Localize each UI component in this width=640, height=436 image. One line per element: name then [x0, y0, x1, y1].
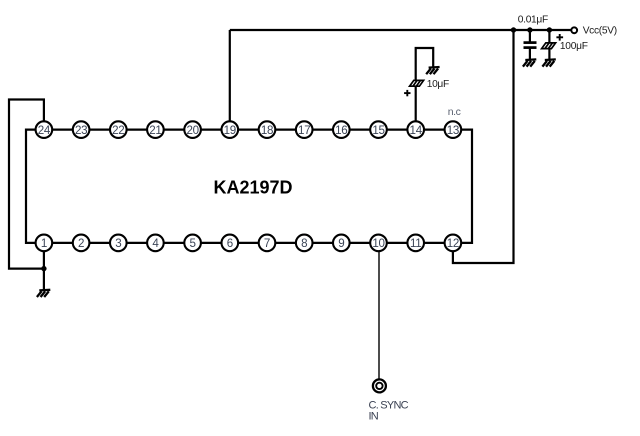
- svg-text:12: 12: [447, 237, 459, 250]
- pin 21: [147, 121, 164, 138]
- capacitor C2 100uF (electrolytic symbol): [542, 43, 556, 49]
- svg-text:13: 13: [447, 124, 459, 137]
- ground (C2): [542, 59, 555, 66]
- wire: Vcc rail drop to pin12: [453, 30, 514, 263]
- svg-text:8: 8: [301, 237, 307, 250]
- svg-text:21: 21: [149, 124, 161, 137]
- wire: C1 bottom lead: [529, 48, 531, 60]
- junction: rail to C1: [527, 27, 532, 32]
- pin 2: [73, 235, 90, 252]
- C2 polarity plus: [556, 34, 563, 41]
- ground (pin 1): [37, 290, 50, 297]
- C3 polarity plus: [404, 90, 410, 96]
- capacitor C3 10uF (electrolytic symbol): [410, 80, 424, 86]
- pin 19: [222, 121, 239, 138]
- svg-text:20: 20: [186, 124, 198, 137]
- capacitor C1 0.01uF plates: [524, 43, 537, 48]
- svg-text:17: 17: [298, 124, 310, 137]
- svg-text:5: 5: [190, 237, 196, 250]
- pin 1: [36, 235, 53, 252]
- pin 22: [110, 121, 127, 138]
- pin 7: [259, 235, 276, 252]
- pin 12: [445, 235, 462, 252]
- Vcc(5V) open terminal: [571, 27, 577, 33]
- junction: rail to C2: [547, 27, 552, 32]
- wire: Vcc rail (top horizontal): [230, 29, 571, 31]
- wire: C1 top lead: [529, 30, 531, 43]
- svg-text:7: 7: [264, 237, 270, 250]
- pin 4: [147, 235, 164, 252]
- wire: pin14 riser to C3: [415, 86, 417, 129]
- pin 17: [296, 121, 313, 138]
- svg-text:16: 16: [335, 124, 347, 137]
- wire: pin1 to ground: [43, 243, 45, 291]
- svg-text:KA2197D: KA2197D: [214, 177, 293, 197]
- connector J1 C.SYNC IN (double circle): [373, 379, 386, 392]
- svg-text:4: 4: [152, 237, 159, 250]
- pin 15: [370, 121, 387, 138]
- pin 10: [370, 235, 387, 252]
- wire: pin24 feedback loop (up, left, down to pin1 ground node): [9, 100, 44, 269]
- wire: pin10 to C.SYNC input jack (thin): [378, 243, 380, 379]
- pin 16: [333, 121, 350, 138]
- pin 8: [296, 235, 313, 252]
- svg-text:10: 10: [372, 237, 384, 250]
- svg-text:3: 3: [115, 237, 121, 250]
- ground (C1): [523, 59, 536, 66]
- svg-text:9: 9: [338, 237, 344, 250]
- wire: pin19 riser to Vcc rail: [229, 30, 231, 130]
- svg-text:Vcc(5V): Vcc(5V): [583, 25, 617, 36]
- svg-text:6: 6: [227, 237, 233, 250]
- pin 3: [110, 235, 127, 252]
- ground (C3): [426, 67, 439, 74]
- pin 5: [184, 235, 201, 252]
- wire: IC body right edge: [471, 129, 473, 245]
- svg-text:11: 11: [410, 237, 421, 250]
- svg-text:18: 18: [261, 124, 273, 137]
- junction: rail to pin12 drop: [511, 27, 516, 32]
- wire: C2 bottom lead: [548, 49, 550, 60]
- pin 24: [36, 121, 53, 138]
- wire: IC body left edge: [25, 129, 27, 245]
- pin 6: [222, 235, 239, 252]
- wire: IC body bottom edge: [26, 242, 472, 244]
- svg-text:23: 23: [75, 124, 87, 137]
- svg-text:1: 1: [41, 237, 47, 250]
- pin 23: [73, 121, 90, 138]
- svg-text:2: 2: [78, 237, 84, 250]
- svg-text:24: 24: [38, 124, 51, 137]
- svg-text:14: 14: [410, 124, 423, 137]
- wire: C2 top lead: [548, 30, 550, 43]
- svg-text:10μF: 10μF: [427, 79, 449, 90]
- pin 14: [407, 121, 424, 138]
- pin 20: [184, 121, 201, 138]
- svg-text:0.01μF: 0.01μF: [518, 15, 548, 26]
- wire: IC body top edge: [26, 129, 472, 131]
- svg-text:n.c: n.c: [448, 106, 461, 118]
- wire: C3 top lead jog to ground: [416, 48, 434, 80]
- label: C. SYNC IN: [369, 400, 409, 423]
- pin 13: [445, 121, 462, 138]
- svg-text:22: 22: [112, 124, 124, 137]
- junction: loop to pin1 ground wire: [41, 266, 46, 271]
- svg-text:19: 19: [224, 124, 236, 137]
- svg-text:100μF: 100μF: [560, 41, 588, 52]
- pin 18: [259, 121, 276, 138]
- svg-text:15: 15: [372, 124, 384, 137]
- svg-text:IN: IN: [369, 410, 379, 422]
- pin 9: [333, 235, 350, 252]
- pin 11: [407, 235, 424, 252]
